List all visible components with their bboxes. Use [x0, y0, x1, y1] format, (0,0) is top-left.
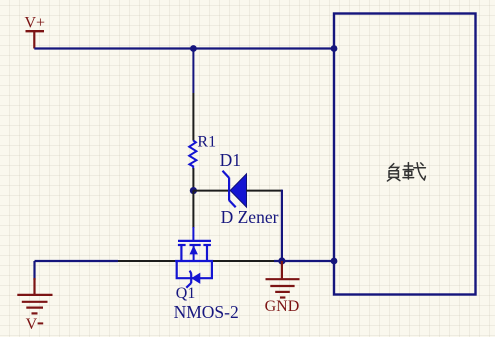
wire junction to zener cathode	[193, 190, 228, 192]
wire R1 bottom to junction	[192, 168, 194, 190]
power port V+	[26, 31, 45, 48]
wire drain to GND junction (black part)	[213, 260, 274, 262]
wire to load bottom-left (navy part)	[274, 260, 334, 262]
junction at top of R1 branch	[190, 45, 197, 52]
wire zener anode to right branch	[247, 190, 282, 192]
svg-text:GND: GND	[265, 298, 300, 315]
wire V- rail to source (black part)	[118, 260, 175, 262]
svg-text:NMOS-2: NMOS-2	[174, 302, 239, 322]
wire from top junction down (navy part)	[192, 49, 194, 94]
wire gate lead from junction (black part)	[192, 191, 194, 228]
junction at GND	[278, 257, 285, 264]
svg-text:Q1: Q1	[176, 285, 196, 302]
junction at load bottom-left	[331, 258, 338, 265]
junction at load top-left	[331, 45, 338, 52]
label 负载 (load)	[387, 163, 425, 181]
power port V-	[17, 278, 52, 313]
ground GND	[266, 261, 300, 298]
svg-text:V: V	[26, 316, 38, 333]
zener diode D1	[223, 171, 247, 208]
wire V- corner down	[33, 261, 35, 280]
wire V- rail (navy part)	[35, 260, 119, 262]
load box	[334, 14, 476, 295]
svg-text:D1: D1	[220, 150, 241, 170]
svg-text:V+: V+	[25, 15, 46, 32]
resistor R1	[189, 140, 196, 168]
wire right branch down to GND rail	[281, 190, 283, 261]
transistor Q1 (NMOS)	[175, 227, 213, 288]
wire from top junction down to R1 (black part)	[192, 93, 194, 141]
wire V+ rail	[34, 47, 334, 49]
junction at R1 / zener / gate node	[190, 187, 197, 194]
svg-text:R1: R1	[197, 133, 216, 150]
svg-text:D Zener: D Zener	[221, 207, 279, 227]
